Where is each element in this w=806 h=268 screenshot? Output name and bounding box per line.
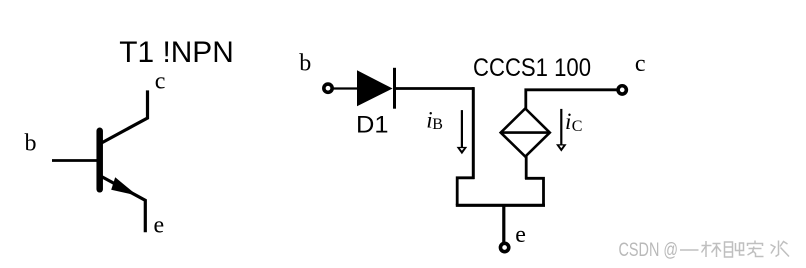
svg-text:e: e [154,212,165,238]
watermark glyph shui [771,241,790,257]
wire emitter lead [101,176,146,232]
diode D1 anode triangle [357,70,393,106]
current arrow iC [560,109,562,145]
wire base lead [52,159,99,162]
wire bus to e terminal [502,204,505,243]
wire diamond bottom lead [525,155,528,179]
current arrow iB [461,110,463,147]
wire diode to corner [395,87,475,90]
transistor T1 base bar [96,131,103,190]
svg-text:CCCS1 100: CCCS1 100 [473,54,591,82]
wire collector lead [101,90,148,143]
transistor T1 emitter arrow [111,177,137,195]
svg-text:T1 !NPN: T1 !NPN [119,36,234,69]
svg-text:b: b [299,51,311,77]
svg-text:i: i [565,109,571,134]
terminal b circle [324,84,332,92]
wire left jog to bus [457,178,474,206]
svg-text:b: b [25,131,37,157]
terminal e circle [500,243,508,251]
svg-text:B: B [432,116,443,133]
svg-text:D1: D1 [356,111,389,138]
watermark glyph zhai [748,241,764,257]
CCCS1 diamond source symbol [501,109,550,157]
terminal c circle [618,86,626,94]
wire right jog to bus [525,178,544,205]
wire iB branch vertical [472,87,475,179]
svg-text:c: c [155,69,166,95]
svg-text:CSDN @: CSDN @ [619,240,679,261]
svg-text:c: c [635,51,646,77]
diode D1 cathode bar [393,68,396,109]
wire b terminal to diode [332,87,358,89]
svg-text:C: C [572,118,583,135]
svg-text:e: e [515,222,526,248]
wire diamond top lead [526,90,618,110]
watermark glyph fei [725,242,745,257]
watermark glyph bei [702,241,722,257]
watermark glyph yi [680,249,699,251]
wire bottom bus bar [456,204,545,207]
